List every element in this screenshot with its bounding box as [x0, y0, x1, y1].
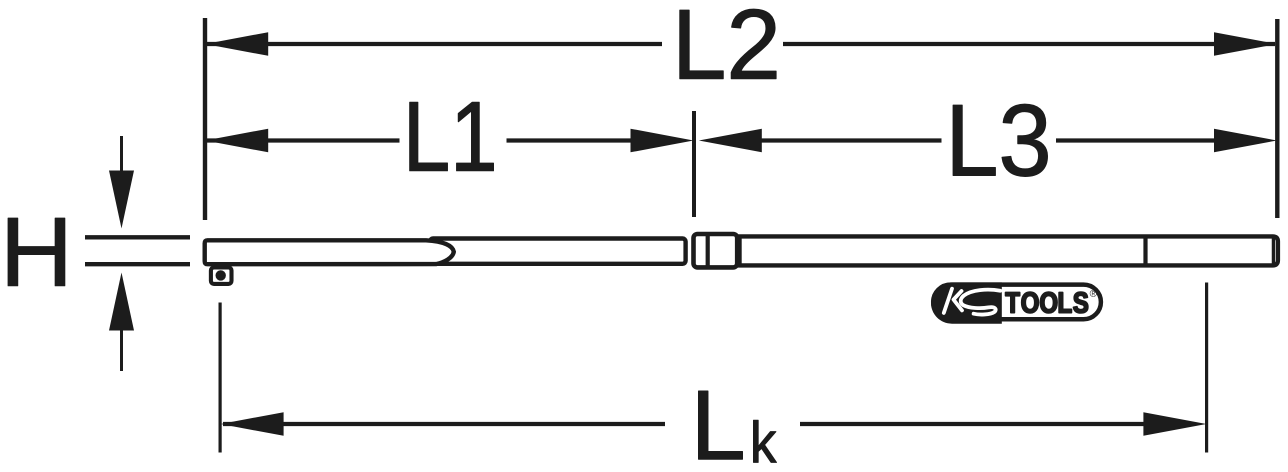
logo capsule [933, 285, 1101, 320]
logo KS script S [961, 290, 1001, 315]
H arrow stem top [120, 136, 123, 175]
logo TOOLS text [1006, 292, 1088, 313]
label Lk [699, 391, 743, 459]
H extension line top [85, 235, 190, 239]
logo KS script K arm [954, 291, 963, 310]
dimension L2 line [207, 42, 1275, 46]
dimension L1 line [207, 138, 636, 142]
arrowhead L2 left [205, 32, 268, 56]
arrowhead L2 right [1214, 32, 1277, 56]
wrench tube left segment [205, 234, 1278, 284]
dimension L3 line [756, 138, 1220, 142]
tube end inner line [1272, 236, 1275, 265]
label L1 [410, 102, 494, 170]
KS TOOLS logo [931, 282, 1101, 323]
collar divider [706, 234, 710, 267]
arrowhead L1 left [205, 129, 268, 153]
square drive pin [216, 270, 226, 280]
label H [8, 218, 64, 286]
H extension line bottom [85, 262, 190, 266]
Lk extension line right (x=1206.5) [1205, 283, 1208, 453]
arrowhead L1 right [631, 129, 694, 153]
extension line right (x=1277.3) [1275, 19, 1279, 218]
logo black half [931, 282, 1002, 323]
arrowhead Lk left [221, 412, 284, 436]
arrowhead L3 left [699, 129, 762, 153]
Lk extension line left (x=220) [219, 303, 222, 453]
arrowhead H up [109, 273, 134, 331]
wrench head [205, 240, 454, 264]
dimension Lk line [223, 422, 1150, 426]
logo KS script K stem [944, 289, 952, 313]
square drive [211, 268, 232, 284]
arrowhead H down [109, 171, 134, 229]
extension line left (x=205) [203, 18, 207, 220]
tube divider [1143, 236, 1147, 265]
adjuster collar [694, 234, 738, 267]
logo registered mark [1090, 290, 1097, 297]
arrowhead L3 right [1214, 129, 1277, 153]
wrench tube right segment [740, 236, 1278, 265]
label L3 [953, 104, 1047, 176]
label L2 [680, 9, 776, 78]
H arrow stem bottom [120, 328, 123, 371]
arrowhead Lk right [1143, 412, 1206, 436]
extension line center (x=694) [692, 111, 696, 217]
